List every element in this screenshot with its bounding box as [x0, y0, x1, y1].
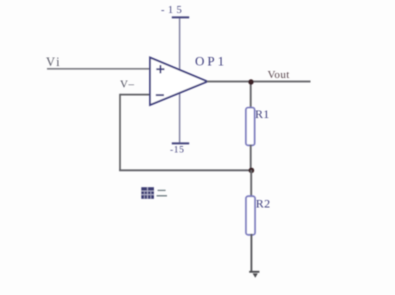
- power -15 bottom rail wire: [179, 93, 181, 144]
- wire feedback horizontal: [119, 169, 251, 171]
- op-amp OP1: [150, 54, 227, 106]
- op-amp OP1 pin -: [156, 94, 164, 96]
- wire R1 to feedback junction: [250, 145, 252, 171]
- svg-text:Vout: Vout: [268, 69, 290, 81]
- ground: [249, 272, 259, 278]
- wire Vi input to op-amp +: [47, 68, 151, 70]
- svg-text:-15: -15: [170, 145, 184, 155]
- svg-text:V–: V–: [120, 79, 134, 91]
- node junction output/R1: [248, 79, 253, 84]
- wire V- input stub: [120, 94, 151, 96]
- svg-text:OP1: OP1: [195, 54, 227, 69]
- power -15 bottom rail bar: [172, 142, 189, 144]
- svg-text:-15: -15: [161, 5, 185, 16]
- resistor R2: [246, 196, 270, 235]
- wire output to Vout: [207, 81, 311, 83]
- svg-text:Vi: Vi: [46, 55, 61, 69]
- power -15 top rail wire: [179, 18, 181, 71]
- wire junction to R2: [250, 170, 252, 198]
- resistor R1: [246, 107, 270, 146]
- op-amp OP1 pin +: [156, 65, 164, 73]
- wire output junction to R1: [250, 82, 252, 110]
- svg-text:R1: R1: [255, 107, 270, 121]
- figure caption 图二: [141, 187, 167, 199]
- wire R2 to ground: [250, 234, 252, 272]
- svg-text:R2: R2: [256, 197, 271, 211]
- node junction feedback/R2: [249, 168, 255, 174]
- wire feedback vertical left: [119, 94, 121, 171]
- power -15 top rail bar: [172, 16, 189, 18]
